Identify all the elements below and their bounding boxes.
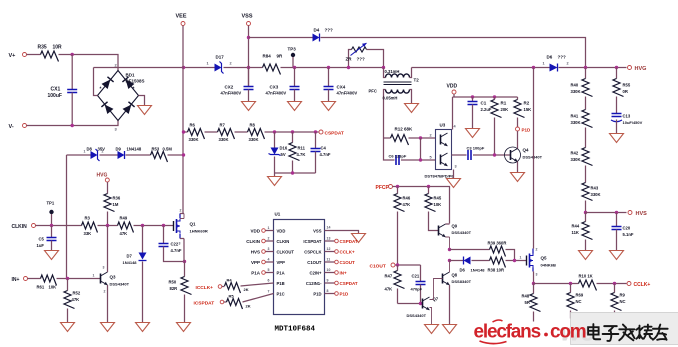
wire U3 to VDD rail (452, 97, 454, 130)
svg-text:TP3: TP3 (288, 47, 297, 52)
port HVG right (628, 66, 647, 73)
node bus D4join (584, 66, 587, 69)
svg-text:2: 2 (268, 237, 270, 241)
net label ICCLK+ (196, 285, 222, 291)
svg-text:P1B: P1B (277, 281, 285, 286)
svg-text:VPP: VPP (251, 260, 260, 265)
node CCLK R9 (613, 282, 616, 285)
svg-text:CSPDAT: CSPDAT (340, 239, 358, 244)
node R11 top (291, 130, 294, 133)
node VDD C1 (471, 95, 474, 98)
port CLKIN (12, 224, 36, 231)
svg-text:C1OUT: C1OUT (340, 260, 356, 265)
svg-text:DSS4340T: DSS4340T (452, 230, 472, 235)
wire VSS vertical (248, 26, 250, 87)
svg-text:R7: R7 (220, 123, 226, 128)
ground D16 rail (268, 173, 282, 186)
ground R44 (579, 251, 593, 260)
svg-text:R6: R6 (190, 123, 196, 128)
svg-text:DSS4340T: DSS4340T (523, 155, 543, 160)
node PFCP R46 (396, 185, 399, 188)
svg-text:15K: 15K (524, 107, 532, 112)
wire Q9 collector (446, 223, 450, 225)
transformer T2 secondary (369, 78, 420, 139)
resistor R44 (572, 213, 593, 251)
node Q4 base (493, 153, 496, 156)
svg-text:NC: NC (620, 299, 626, 304)
resistor R69 (567, 284, 584, 319)
resistor R41 (571, 97, 593, 128)
svg-text:47K: 47K (72, 297, 80, 302)
wire Q8 collector (449, 261, 451, 273)
svg-text:CCLK+: CCLK+ (634, 282, 651, 288)
resistor R35 (38, 45, 63, 62)
svg-text:1N4148: 1N4148 (123, 260, 138, 265)
svg-text:DST847BPD/P6: DST847BPD/P6 (425, 174, 455, 179)
svg-text:C1OUT: C1OUT (307, 260, 322, 265)
svg-text:1: 1 (207, 62, 209, 66)
ic U1 pin 12 CCLK+ (325, 247, 355, 255)
capacitor C3 (452, 146, 511, 161)
svg-text:Q4: Q4 (523, 148, 530, 153)
svg-text:HVG: HVG (635, 66, 647, 72)
ic U1 pin 5 P1A (251, 268, 273, 276)
svg-text:IN+: IN+ (340, 271, 348, 276)
diode D17 (207, 55, 232, 74)
svg-text:100uF: 100uF (48, 93, 62, 99)
svg-text:8: 8 (327, 289, 329, 293)
node V+ junction (71, 53, 74, 56)
svg-text:VPP: VPP (277, 260, 286, 265)
svg-text:C12IN1-: C12IN1- (306, 281, 322, 286)
resistor R55 (613, 68, 631, 114)
svg-text:0.5M: 0.5M (163, 147, 173, 152)
svg-text:CLKOUT: CLKOUT (277, 249, 295, 254)
ic U1 MDT10P684 (274, 212, 325, 315)
svg-text:R43: R43 (591, 186, 599, 191)
diode D10 (460, 257, 486, 273)
resistor R45 (425, 187, 442, 231)
resistor R12 (384, 127, 436, 146)
svg-text:0R: 0R (623, 89, 628, 94)
svg-text:C1: C1 (481, 101, 487, 106)
mosfet Q5 (520, 248, 556, 277)
transistor Q3 (93, 266, 130, 294)
svg-text:P1C: P1C (277, 291, 285, 296)
svg-text:R45: R45 (434, 196, 442, 201)
wire Q1 drain (180, 214, 184, 219)
svg-text:2: 2 (180, 209, 182, 213)
varistor ZR (346, 43, 384, 68)
svg-text:5R: 5R (525, 300, 530, 305)
svg-text:D9: D9 (116, 147, 122, 152)
transistor Q8 (443, 272, 472, 285)
svg-text:D4: D4 (314, 28, 320, 33)
svg-text:3: 3 (179, 242, 181, 246)
ground CX2 (242, 102, 256, 111)
svg-text:C5: C5 (39, 237, 45, 242)
svg-text:NC: NC (576, 299, 582, 304)
svg-text:330K: 330K (219, 137, 229, 142)
node bus TP3 (293, 66, 296, 69)
svg-text:R41: R41 (571, 114, 579, 119)
net label ICSPDAT (194, 300, 224, 306)
svg-text:14: 14 (327, 226, 331, 230)
svg-text:DSS4340T: DSS4340T (110, 282, 130, 287)
svg-text:VDD: VDD (277, 228, 286, 233)
svg-text:5: 5 (268, 268, 270, 272)
wire Q8 emitter (449, 285, 451, 325)
zener D8 (84, 147, 106, 162)
node CLKIN C22 (162, 224, 165, 227)
wire R39 row (450, 250, 515, 261)
wire VEE vertical (182, 26, 184, 214)
svg-text:CLKIN: CLKIN (12, 224, 28, 230)
svg-text:R10 1K: R10 1K (579, 274, 593, 279)
node bus ZR right (382, 66, 385, 69)
svg-text:CSPDAT: CSPDAT (325, 131, 344, 137)
node bus VSS (247, 66, 250, 69)
svg-text:CX4: CX4 (337, 85, 346, 90)
svg-text:2: 2 (230, 62, 232, 66)
svg-text:Q9: Q9 (452, 224, 458, 229)
svg-text:C6 123pF: C6 123pF (389, 154, 407, 159)
svg-text:82R: 82R (170, 286, 178, 291)
svg-text:470pF: 470pF (411, 287, 423, 292)
node R6 VEE (182, 130, 185, 133)
svg-text:C4: C4 (321, 146, 327, 151)
ic U1 pin 2 CLKIN (246, 237, 273, 245)
resistor R9 (611, 284, 626, 319)
watermark elecfans.com (474, 320, 586, 344)
ground U3 (447, 179, 461, 188)
svg-text:12: 12 (327, 247, 331, 251)
node Q9 emitter (448, 248, 451, 251)
svg-text:330K: 330K (571, 120, 581, 125)
diode D7 (123, 253, 147, 266)
resistor R50 (169, 262, 192, 323)
transformer T2 core (384, 82, 412, 85)
capacitor CX3 (266, 68, 300, 102)
ground C1 (466, 129, 480, 138)
svg-text:C21: C21 (412, 274, 420, 279)
diode D4 (313, 28, 333, 42)
node bus Q5 (532, 66, 535, 69)
svg-text:Q5: Q5 (541, 256, 548, 261)
ground C5 (45, 251, 59, 260)
svg-text:11: 11 (327, 258, 331, 262)
svg-text:R61: R61 (37, 285, 45, 290)
net label C1OUT (370, 263, 396, 270)
ic U1 pin 10 IN+ (325, 268, 348, 276)
svg-text:4: 4 (268, 258, 270, 262)
resistor R61 (37, 275, 57, 290)
ground R50 (177, 323, 191, 332)
svg-text:2.2uF: 2.2uF (481, 107, 492, 112)
wire IN+ to R61 (28, 278, 41, 280)
svg-text:R69: R69 (576, 293, 584, 298)
svg-text:R11: R11 (298, 146, 306, 151)
ic U1 pin 13 CSPDAT (325, 237, 358, 245)
resistor R53 (151, 147, 173, 163)
svg-text:1: 1 (520, 256, 522, 260)
ground T2 (405, 104, 419, 113)
svg-text:2: 2 (430, 134, 432, 138)
wire V+ to R35 (27, 54, 41, 56)
resistor R84 (263, 54, 284, 75)
svg-text:D16: D16 (280, 146, 288, 151)
node bus VEE (182, 66, 185, 69)
wire CLKIN rail (36, 225, 174, 227)
wire D7 to ground (142, 262, 144, 323)
node CLKIN D7 (141, 224, 144, 227)
svg-text:???: ??? (325, 28, 333, 33)
resistor R8 (248, 123, 265, 143)
svg-text:VSS: VSS (242, 14, 253, 20)
port V- (9, 124, 27, 131)
svg-text:R53: R53 (152, 147, 160, 152)
node HVS C20 (615, 211, 618, 214)
svg-text:???: ??? (558, 55, 566, 60)
resistor R3 (82, 216, 98, 237)
svg-text:ZR: ZR (346, 57, 353, 62)
diode D6 (543, 55, 569, 72)
svg-text:VSS: VSS (313, 228, 322, 233)
node bottom rail (291, 171, 294, 174)
node R12 out (419, 136, 422, 139)
capacitor C1 (468, 97, 492, 129)
ground D7 (136, 323, 150, 332)
svg-text:C3 100pF: C3 100pF (467, 146, 485, 151)
wire V- rail (27, 121, 119, 126)
ground CX3 (288, 102, 302, 111)
port VDD (447, 84, 458, 95)
ground bridge (138, 106, 152, 115)
capacitor CX4 (324, 68, 358, 102)
node VSS D4 (247, 36, 250, 39)
capacitor CX1 (48, 55, 78, 126)
resistor R39 (488, 241, 507, 257)
svg-text:ICSPDAT: ICSPDAT (194, 301, 215, 307)
svg-text:3: 3 (536, 273, 538, 277)
ic U1 pin 14 VSS wire (325, 226, 359, 234)
svg-text:6: 6 (268, 279, 270, 283)
svg-text:HVS: HVS (636, 211, 648, 217)
capacitor C5 (37, 226, 57, 251)
svg-text:CSPDAT: CSPDAT (340, 281, 358, 286)
svg-text:*: * (133, 87, 135, 93)
svg-text:47K: 47K (120, 231, 128, 236)
resistor R5 (224, 290, 274, 310)
svg-text:BD1: BD1 (126, 73, 135, 78)
svg-text:330K: 330K (189, 137, 199, 142)
node Q5 source (532, 282, 535, 285)
wire Q5 source (533, 272, 535, 284)
svg-text:20K: 20K (501, 107, 509, 112)
svg-text:R49: R49 (120, 216, 128, 221)
svg-text:Q3: Q3 (110, 275, 117, 280)
svg-text:Q1: Q1 (190, 222, 197, 227)
svg-text:2: 2 (536, 248, 538, 252)
node D16 top (273, 130, 276, 133)
svg-text:P1D: P1D (522, 128, 532, 133)
svg-text:1: 1 (268, 226, 270, 230)
wire Q5 drain (533, 68, 535, 249)
capacitor C22 (159, 226, 185, 262)
svg-text:47K: 47K (385, 287, 393, 292)
wire Q7 base rail (398, 303, 423, 305)
svg-text:T2: T2 (414, 78, 420, 83)
svg-text:10uF/450V: 10uF/450V (623, 120, 643, 125)
node C4 top (314, 130, 317, 133)
node C21 bottom (419, 302, 422, 305)
svg-text:P1D: P1D (340, 292, 350, 297)
wire Q3 collector (107, 226, 109, 273)
wire D row (450, 260, 527, 262)
svg-text:47nF/400V: 47nF/400V (221, 91, 242, 96)
svg-text:C2IN+: C2IN+ (310, 270, 323, 275)
svg-text:1: 1 (84, 150, 86, 154)
resistor R11 (289, 132, 306, 173)
node Q1 source join (183, 260, 186, 263)
resistor R1 (491, 97, 508, 155)
test point TP3 (288, 47, 297, 68)
svg-text:10: 10 (327, 268, 331, 272)
transistor Q9 (439, 224, 472, 238)
svg-text:7: 7 (268, 290, 270, 294)
node D row right (513, 259, 516, 262)
svg-text:13: 13 (327, 237, 331, 241)
watermark grey box (561, 313, 678, 347)
svg-text:R4: R4 (227, 278, 233, 283)
ic U1 pin 3 HVS (251, 247, 274, 255)
resistor R52 (64, 279, 81, 323)
wire R2 to Q4 (517, 131, 519, 148)
svg-text:0.05mH: 0.05mH (383, 96, 398, 101)
svg-text:D8: D8 (87, 147, 93, 152)
svg-text:47K: 47K (403, 202, 411, 207)
wire D8 row (67, 154, 184, 156)
svg-text:R38 10R: R38 10R (488, 268, 505, 273)
svg-text:CSPCLK: CSPCLK (304, 249, 321, 254)
wire D4 to HVG column (321, 38, 586, 68)
net label HVG left (97, 173, 110, 183)
resistor R43 (582, 166, 601, 213)
port VSS (242, 14, 253, 26)
svg-text:33K: 33K (84, 231, 92, 236)
wire R35 to bridge top (59, 55, 119, 71)
svg-text:DSS8340T: DSS8340T (452, 279, 472, 284)
svg-text:2: 2 (567, 62, 569, 66)
bridge rectifier BD1 (98, 63, 145, 132)
svg-text:R1: R1 (501, 101, 507, 106)
ground C13 (610, 134, 624, 143)
svg-text:TP1: TP1 (47, 201, 55, 206)
svg-text:1: 1 (543, 62, 545, 66)
net label PFCP (376, 185, 393, 192)
svg-text:PFC: PFC (369, 89, 377, 94)
svg-text:D6: D6 (460, 268, 466, 273)
node D row left (448, 259, 451, 262)
svg-text:HVG: HVG (97, 173, 108, 179)
svg-text:1uF: 1uF (37, 243, 45, 248)
svg-text:VDD: VDD (250, 229, 260, 234)
wire R61 to Q3 (57, 278, 101, 280)
svg-text:330K: 330K (571, 89, 581, 94)
label MDT10F684 (275, 326, 316, 334)
node V- junction (71, 124, 74, 127)
svg-text:R39 360R: R39 360R (488, 241, 507, 246)
ground Q7 (425, 325, 439, 334)
svg-text:3: 3 (103, 266, 105, 270)
wire HVS rail (586, 212, 627, 214)
test point TP1 (47, 201, 55, 226)
ic U1 pin 11 C1OUT (325, 258, 356, 266)
svg-text:3: 3 (268, 247, 270, 251)
wire R12-C6 link (420, 138, 422, 160)
svg-text:DSS4340T: DSS4340T (407, 313, 427, 318)
svg-text:C20: C20 (623, 226, 631, 231)
svg-text:1N4148: 1N4148 (471, 268, 486, 273)
svg-text:P1D: P1D (313, 291, 321, 296)
net label P1D (516, 127, 532, 133)
node C6 out (419, 158, 422, 161)
svg-text:47nF/400V: 47nF/400V (337, 91, 358, 96)
svg-text:R52: R52 (73, 291, 81, 296)
svg-text:3: 3 (455, 165, 457, 169)
transistor Q4 (505, 147, 543, 173)
wire CCLK rail (534, 283, 627, 285)
ic U1 pin 4 VPP (251, 258, 274, 266)
wire PFCP rail (393, 187, 450, 224)
svg-text:330K: 330K (249, 137, 259, 142)
net label CSPDAT top (319, 130, 344, 137)
node bus CX4 (327, 66, 330, 69)
wire D16 bottom rail (275, 172, 316, 174)
svg-text:1M: 1M (113, 202, 119, 207)
resistor R7 (218, 123, 235, 143)
svg-text:4.7nF: 4.7nF (320, 152, 331, 157)
svg-text:1: 1 (93, 274, 95, 278)
svg-text:R8: R8 (250, 123, 256, 128)
wire left riser (66, 155, 68, 279)
diode D9 (116, 147, 142, 160)
ic U1 pin 9 CSPDAT (325, 279, 358, 287)
svg-text:330K: 330K (571, 157, 581, 162)
capacitor CX2 (221, 68, 254, 102)
svg-text:4.7K: 4.7K (297, 152, 306, 157)
svg-text:R40: R40 (571, 83, 579, 88)
resistor R4 (222, 278, 274, 294)
transformer T2 primary (384, 68, 412, 78)
wire bridge right to ground (139, 96, 145, 106)
svg-text:2K: 2K (246, 304, 251, 309)
svg-text:C13: C13 (623, 114, 631, 119)
svg-text:5.1nF: 5.1nF (623, 232, 634, 237)
svg-text:R12 68K: R12 68K (395, 127, 414, 132)
svg-text:R84: R84 (263, 54, 272, 59)
svg-text:ICCLK+: ICCLK+ (196, 285, 214, 291)
svg-text:R9: R9 (620, 293, 626, 298)
port IN+ (12, 277, 28, 284)
node HVS left (584, 211, 587, 214)
ground Q8 (443, 325, 457, 334)
resistor R38 (488, 257, 506, 273)
node Q3 base (66, 277, 69, 280)
svg-text:47nF/400V: 47nF/400V (266, 91, 287, 96)
node bus R55 (615, 66, 618, 69)
svg-text:CX2: CX2 (225, 85, 234, 90)
